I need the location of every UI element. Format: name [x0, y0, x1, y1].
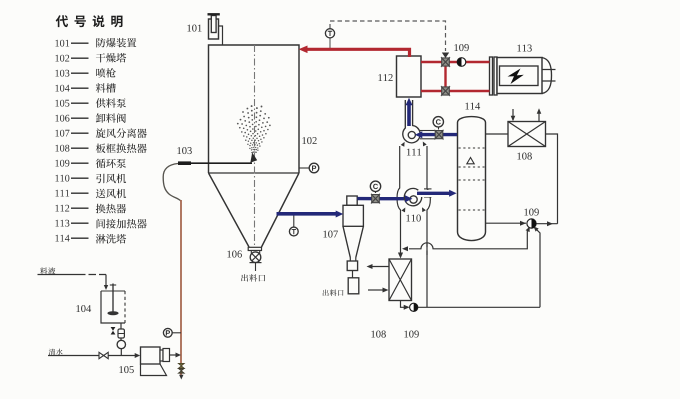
- feed pump 105: [141, 347, 182, 376]
- valve 109 on upper red line: [442, 58, 450, 66]
- legend row 101: [55, 38, 136, 48]
- numeric labels: [187, 25, 201, 32]
- scrubber-108 piping: [486, 133, 509, 135]
- legend row 111: [55, 189, 126, 199]
- red line 112 to 113 lower: [421, 90, 490, 92]
- legend row 104: [55, 83, 115, 93]
- drying tower 102 body: [209, 45, 300, 247]
- pump 109 (bottom): [410, 303, 418, 311]
- legend row 114: [55, 234, 126, 244]
- temperature gauge T at tower outlet: [293, 215, 295, 227]
- legend row 112: [55, 204, 126, 214]
- heat exchanger 112: [397, 56, 422, 97]
- label 出料口 (cyclone): [323, 290, 344, 297]
- bottom circulation piping: [401, 301, 405, 308]
- valve 109 on lower red line: [442, 87, 450, 95]
- legend title 代号说明: [56, 15, 123, 27]
- valve on cyclone outlet line: [372, 195, 380, 203]
- pump 109 (mid right): [527, 219, 536, 228]
- legend row 106: [55, 113, 126, 123]
- tank drain valve: [111, 327, 116, 335]
- label 料液: [40, 267, 55, 274]
- legend row 102: [55, 53, 126, 63]
- red riser between valves: [444, 62, 446, 91]
- plate-frame heat exchanger 108 (bottom): [367, 259, 412, 301]
- pump on upper red line: [457, 58, 466, 67]
- discharge valve 106: [248, 247, 261, 271]
- cyclone separator 107: [343, 196, 363, 294]
- explosion-proof device 101: [208, 14, 223, 45]
- fan 111 (supply fan): [403, 100, 420, 143]
- spray pattern dots: [237, 105, 271, 153]
- feed liquid line 料液: [38, 275, 109, 291]
- spray gun 103: [178, 153, 257, 164]
- blue pipe scrubber to fan111: [422, 133, 458, 136]
- fresh water line 清水: [48, 353, 140, 358]
- scrubber tower 114: [458, 117, 486, 241]
- feed tank 104: [101, 284, 125, 324]
- valve on feed riser: [178, 363, 184, 368]
- blue pipe fan110 to scrubber: [417, 192, 451, 195]
- label 清水: [49, 349, 63, 356]
- pressure gauge P on tower: [299, 167, 309, 169]
- legend row 113: [55, 219, 146, 229]
- legend row 103: [55, 68, 115, 78]
- control dashed line with T sensor: [330, 21, 449, 58]
- hot air main (red) into tower: [306, 49, 410, 57]
- legend row 108: [55, 143, 146, 153]
- circulation pump 109 (mid right) piping: [402, 221, 558, 308]
- blue pipe tower cone to cyclone: [277, 212, 338, 216]
- tower center axis: [254, 45, 256, 246]
- duct stand between fans: [397, 142, 430, 308]
- fan 110 (induced draft fan): [404, 188, 457, 205]
- valve on scrubber-fan111 line: [435, 131, 443, 139]
- plate-frame heat exchanger 108 (top right): [508, 108, 546, 146]
- valve on water line: [99, 352, 104, 358]
- indirect heater 113: [490, 57, 556, 95]
- red line 112 to 113 upper: [421, 61, 490, 63]
- blue pipe fan111 to 112: [407, 104, 411, 126]
- label 出料口 (tower): [241, 274, 265, 282]
- legend row 110: [55, 174, 126, 184]
- blue pipe cyclone to fan 110: [357, 197, 404, 200]
- crossover bump: [422, 247, 433, 250]
- legend row 105: [55, 98, 126, 108]
- feed hose: [163, 164, 181, 202]
- legend row 109: [55, 159, 126, 169]
- feed riser line (brown): [180, 200, 182, 364]
- legend row 107: [55, 128, 146, 138]
- pressure gauge P at pump: [172, 332, 181, 334]
- tank outlet to pump: [117, 323, 125, 356]
